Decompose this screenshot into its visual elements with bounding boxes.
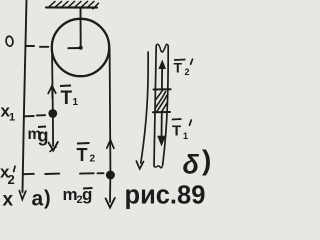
svg-text:2: 2	[185, 67, 190, 77]
svg-text:T: T	[172, 123, 181, 140]
svg-text:1: 1	[9, 112, 15, 124]
svg-text:): )	[202, 145, 211, 176]
svg-text:a: a	[32, 188, 44, 211]
svg-text:δ: δ	[183, 150, 200, 180]
svg-text:x: x	[3, 190, 14, 211]
svg-text:2: 2	[8, 172, 15, 187]
svg-text:2: 2	[90, 154, 96, 165]
svg-text:T: T	[77, 145, 88, 165]
svg-text:T: T	[61, 88, 73, 109]
svg-text:рис.89: рис.89	[125, 182, 206, 210]
svg-text:g: g	[38, 126, 49, 146]
svg-text:1: 1	[73, 97, 79, 108]
svg-text:1: 1	[183, 131, 188, 141]
svg-text:T: T	[174, 60, 183, 76]
svg-text:): )	[44, 188, 51, 210]
svg-text:m: m	[63, 185, 78, 204]
